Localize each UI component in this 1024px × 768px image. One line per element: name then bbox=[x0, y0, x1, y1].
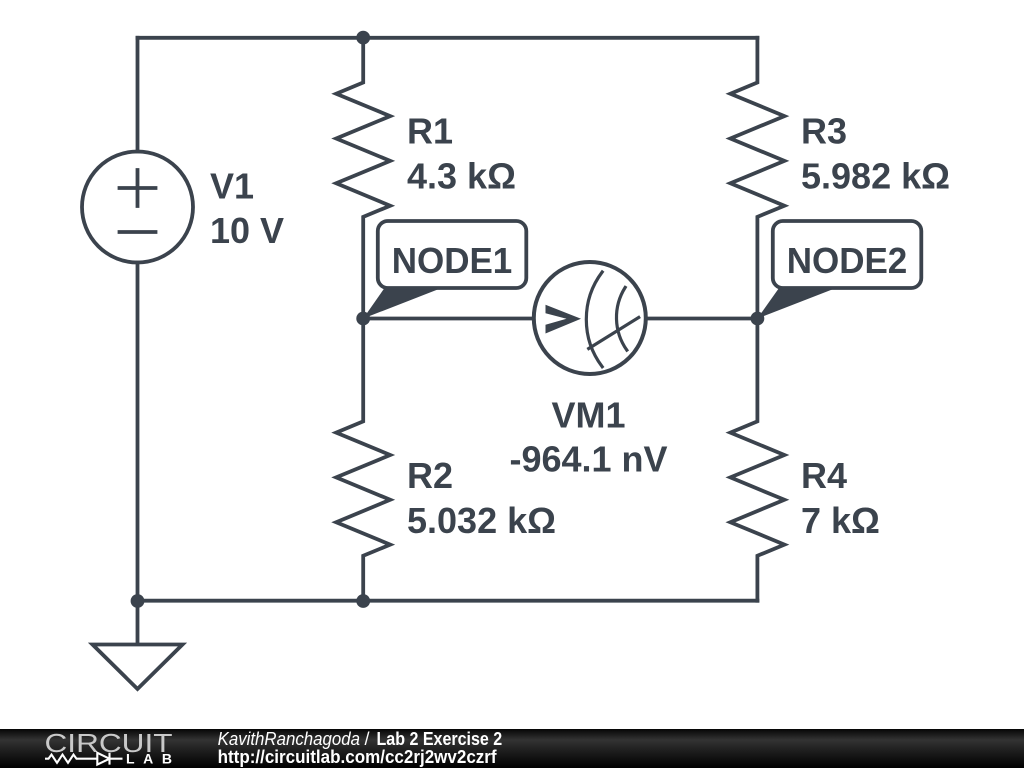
svg-text:7 kΩ: 7 kΩ bbox=[801, 500, 880, 541]
resistor R4 bbox=[730, 319, 784, 601]
svg-text:R1: R1 bbox=[407, 111, 453, 152]
logo resistor-diode squiggle bbox=[45, 753, 123, 765]
node callout NODE2 bbox=[757, 221, 921, 319]
wire left upper bbox=[136, 38, 140, 152]
wire node1 to VM1 bbox=[363, 317, 533, 321]
svg-text:KavithRanchagoda: KavithRanchagoda bbox=[218, 729, 360, 749]
resistor R3 bbox=[730, 38, 784, 319]
svg-text:10 V: 10 V bbox=[210, 210, 284, 251]
wire bottom bbox=[138, 599, 758, 603]
node callout NODE1 bbox=[363, 221, 526, 319]
voltmeter VM1 bbox=[534, 262, 646, 374]
ground bbox=[93, 601, 183, 689]
svg-text:5.032 kΩ: 5.032 kΩ bbox=[407, 500, 556, 541]
svg-text:V1: V1 bbox=[210, 166, 254, 207]
resistor R1 bbox=[336, 38, 390, 319]
svg-text:5.982 kΩ: 5.982 kΩ bbox=[801, 156, 950, 197]
svg-text:http://circuitlab.com/cc2rj2wv: http://circuitlab.com/cc2rj2wv2czrf bbox=[218, 747, 498, 767]
wire VM1 to node2 bbox=[646, 317, 757, 321]
svg-text:NODE1: NODE1 bbox=[392, 240, 513, 281]
wire left lower bbox=[136, 263, 140, 601]
svg-text:VM1: VM1 bbox=[551, 395, 625, 436]
wire top bbox=[138, 36, 758, 40]
footer bar bbox=[0, 729, 1024, 768]
svg-text:Lab 2 Exercise 2: Lab 2 Exercise 2 bbox=[377, 729, 503, 749]
resistor R2 bbox=[336, 319, 390, 601]
svg-text:R4: R4 bbox=[801, 455, 847, 496]
svg-text:R3: R3 bbox=[801, 111, 847, 152]
svg-text:R2: R2 bbox=[407, 455, 453, 496]
svg-text:NODE2: NODE2 bbox=[787, 240, 908, 281]
voltage source V1 bbox=[82, 152, 193, 263]
svg-text:/: / bbox=[365, 729, 370, 749]
svg-text:4.3 kΩ: 4.3 kΩ bbox=[407, 156, 516, 197]
svg-text:-964.1 nV: -964.1 nV bbox=[509, 439, 667, 480]
svg-text:LAB: LAB bbox=[126, 751, 172, 767]
